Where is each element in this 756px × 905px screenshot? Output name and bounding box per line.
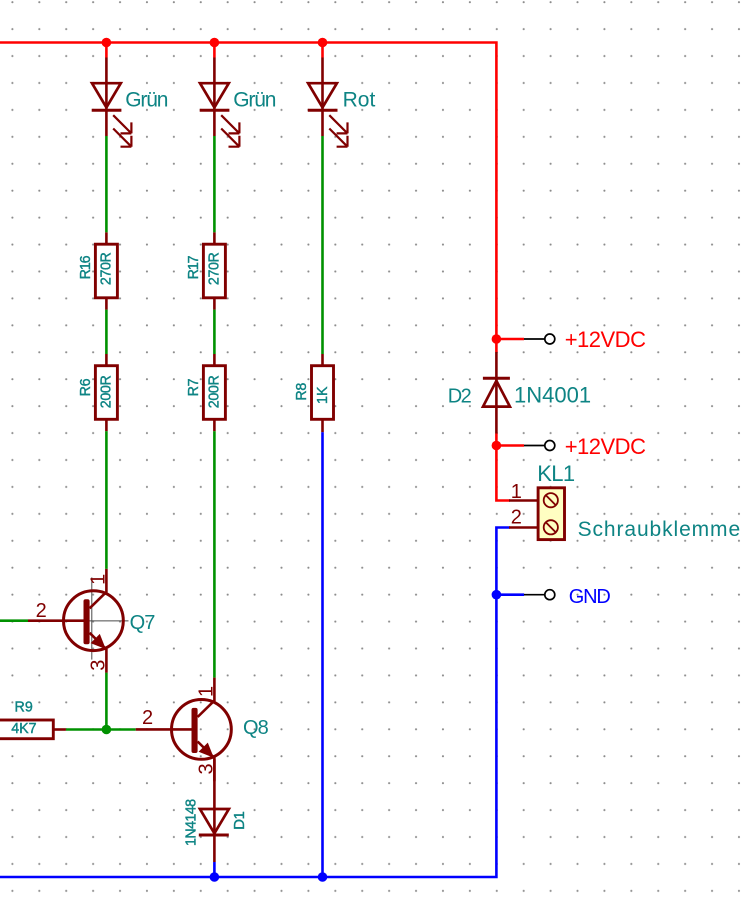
svg-text:1: 1 bbox=[195, 686, 217, 697]
svg-text:KL1: KL1 bbox=[537, 461, 575, 486]
svg-text:200R: 200R bbox=[207, 376, 223, 409]
svg-text:2: 2 bbox=[511, 507, 522, 529]
svg-text:Q8: Q8 bbox=[243, 717, 269, 739]
svg-text:3: 3 bbox=[87, 660, 109, 671]
svg-text:2: 2 bbox=[142, 707, 153, 729]
svg-text:Grün: Grün bbox=[125, 89, 167, 112]
svg-text:R17: R17 bbox=[186, 255, 202, 279]
svg-text:3: 3 bbox=[195, 763, 217, 774]
svg-text:1N4148: 1N4148 bbox=[183, 799, 199, 846]
svg-text:+12VDC: +12VDC bbox=[565, 434, 646, 459]
svg-text:1: 1 bbox=[511, 481, 522, 503]
svg-text:R8: R8 bbox=[294, 383, 310, 401]
svg-text:D2: D2 bbox=[448, 385, 472, 407]
svg-text:R6: R6 bbox=[78, 378, 94, 396]
svg-text:GND: GND bbox=[569, 586, 611, 608]
svg-text:Grün: Grün bbox=[233, 89, 275, 112]
svg-text:270R: 270R bbox=[207, 252, 223, 285]
svg-text:200R: 200R bbox=[99, 376, 115, 409]
svg-text:1K: 1K bbox=[315, 386, 331, 404]
svg-text:Rot: Rot bbox=[343, 89, 376, 112]
svg-text:1: 1 bbox=[87, 574, 109, 585]
svg-text:4K7: 4K7 bbox=[11, 721, 36, 737]
svg-text:R16: R16 bbox=[78, 255, 94, 279]
svg-text:2: 2 bbox=[36, 600, 47, 622]
svg-text:1N4001: 1N4001 bbox=[514, 382, 591, 407]
svg-text:270R: 270R bbox=[99, 252, 115, 285]
svg-text:R9: R9 bbox=[15, 700, 33, 716]
svg-text:D1: D1 bbox=[231, 811, 248, 829]
svg-text:Q7: Q7 bbox=[130, 612, 156, 634]
svg-text:R7: R7 bbox=[186, 378, 202, 396]
svg-text:Schraubklemme: Schraubklemme bbox=[578, 518, 741, 541]
svg-text:+12VDC: +12VDC bbox=[565, 327, 646, 352]
